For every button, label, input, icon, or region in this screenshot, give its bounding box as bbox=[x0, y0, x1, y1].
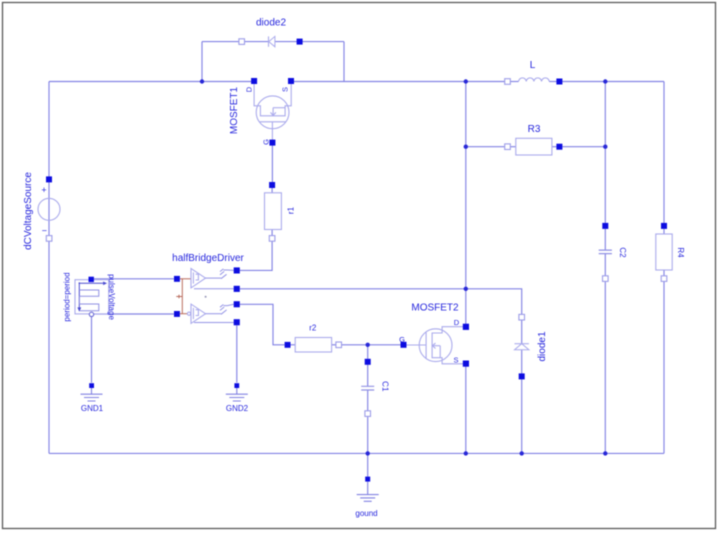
wire r2 to MOSFET2 gate bbox=[342, 344, 401, 346]
resistor R4 bbox=[656, 223, 685, 282]
wire C1 lead top bbox=[367, 365, 369, 387]
driver buffer 2 bbox=[187, 304, 205, 323]
junction node R3 left bbox=[464, 145, 468, 149]
wire left rail upper bbox=[48, 82, 50, 177]
wire C1 lead bottom bbox=[367, 390, 369, 410]
pulse source pulseVoltage bbox=[63, 272, 117, 321]
wire r2 lead left bbox=[290, 344, 295, 346]
wire pulse bottom to GND1 bbox=[91, 317, 93, 383]
ground GND2 bbox=[226, 383, 249, 413]
junction node bottom rail / C2 bbox=[603, 451, 607, 455]
wire R3 lead left bbox=[510, 146, 516, 148]
pin S of MOSFET1 bbox=[288, 78, 294, 84]
wire C1 to bottom rail bbox=[367, 416, 369, 453]
driver coupler 2 bbox=[206, 304, 234, 314]
wire R4 lead bottom bbox=[663, 270, 665, 276]
svg-text:D: D bbox=[245, 86, 254, 92]
signal red tick bbox=[176, 295, 182, 299]
junction node bottom rail / MOSFET2 bbox=[464, 451, 468, 455]
wire diode2 left riser bbox=[201, 42, 203, 82]
svg-text:G: G bbox=[261, 139, 270, 145]
diode diode1 bbox=[515, 314, 549, 379]
MOSFET Q MOSFET2 bbox=[399, 303, 469, 367]
wire C2 drop upper bbox=[604, 82, 606, 224]
junction node r2 / C1 bbox=[366, 343, 370, 347]
driver internal wire out2 bbox=[194, 288, 234, 290]
wire diode2 right riser bbox=[343, 42, 345, 82]
wire driver out3 to r2 bbox=[240, 304, 285, 345]
node mark between driver buffers bbox=[205, 296, 207, 298]
svg-text:GND2: GND2 bbox=[226, 404, 249, 413]
pin G of MOSFET1 bbox=[269, 140, 275, 146]
wire L lead left bbox=[510, 81, 518, 83]
wire driver out4 to GND2 bbox=[236, 325, 238, 382]
wire left rail lower bbox=[48, 241, 50, 453]
wire L lead right bbox=[549, 81, 556, 83]
svg-text:S: S bbox=[453, 356, 458, 365]
wire C2 drop lower bbox=[604, 282, 606, 454]
svg-text:−: − bbox=[42, 226, 47, 236]
wire bottom rail bbox=[49, 452, 664, 454]
junction node R3 right bbox=[603, 145, 607, 149]
wire R3 lead right bbox=[552, 146, 557, 148]
wire node to C1 bbox=[367, 345, 369, 359]
wire r1 to driver out1 bbox=[240, 241, 272, 270]
wire bottom rail to gound bbox=[367, 453, 369, 476]
svg-text:r1: r1 bbox=[287, 206, 296, 214]
svg-text:G: G bbox=[399, 335, 405, 344]
diode diode2 bbox=[239, 18, 303, 47]
driver output pin 2 bbox=[234, 286, 240, 292]
svg-text:pulseVoltage: pulseVoltage bbox=[107, 274, 116, 320]
svg-text:diode2: diode2 bbox=[256, 18, 286, 29]
junction node bottom rail / diode1 bbox=[520, 451, 524, 455]
signal wire red vertical bbox=[181, 279, 183, 314]
driver input pin 2 bbox=[174, 311, 180, 317]
wire through voltage source bbox=[48, 182, 50, 235]
capacitor C2 bbox=[599, 223, 628, 282]
svg-text:halfBridgeDriver: halfBridgeDriver bbox=[172, 253, 244, 264]
svg-text:gound: gound bbox=[355, 509, 377, 518]
wire mid drop lower bbox=[465, 367, 467, 454]
svg-text:diode1: diode1 bbox=[537, 331, 548, 361]
inductor L bbox=[505, 60, 563, 85]
wire R3 branch left bbox=[466, 146, 505, 148]
svg-text:R3: R3 bbox=[528, 124, 541, 135]
wire mid drop upper bbox=[465, 82, 467, 325]
driver output pin 3 bbox=[234, 301, 240, 307]
resistor R3 bbox=[505, 124, 563, 155]
signal wire red input1 bbox=[180, 278, 191, 280]
block halfBridgeDriver bbox=[172, 253, 244, 264]
svg-text:+: + bbox=[41, 185, 46, 195]
driver output pin 4 bbox=[234, 319, 240, 325]
svg-text:R4: R4 bbox=[676, 247, 685, 258]
wire MOSFET1 gate to r1 bbox=[271, 146, 273, 183]
wire top rail left bbox=[49, 81, 251, 83]
ground gound bbox=[355, 477, 378, 518]
voltage source dCVoltageSource bbox=[23, 172, 60, 250]
wire diode2 top bbox=[202, 41, 344, 43]
wire pulse bottom to driver in2 bbox=[92, 313, 174, 315]
svg-text:D: D bbox=[454, 318, 460, 327]
svg-text:period=period: period=period bbox=[63, 272, 72, 321]
driver internal wire out4 bbox=[194, 322, 234, 324]
driver buffer 1 bbox=[191, 269, 206, 288]
junction node top rail / C2 drop bbox=[603, 79, 607, 83]
wire R3 branch right bbox=[562, 146, 605, 148]
wire right drop upper bbox=[663, 82, 665, 224]
wire R4 lead top bbox=[663, 229, 665, 234]
pin S of MOSFET2 bbox=[463, 361, 469, 367]
svg-text:C2: C2 bbox=[618, 247, 627, 258]
pin D of MOSFET1 bbox=[251, 78, 257, 84]
junction node diode2 tap bbox=[200, 79, 204, 83]
wire top rail right bbox=[562, 81, 664, 83]
svg-text:dCVoltageSource: dCVoltageSource bbox=[23, 172, 34, 250]
svg-text:r2: r2 bbox=[309, 324, 317, 333]
wire C2 lead top bbox=[604, 229, 606, 250]
svg-text:GND1: GND1 bbox=[81, 404, 104, 413]
svg-text:L: L bbox=[530, 60, 536, 71]
signal wire red input2 bbox=[180, 313, 188, 315]
junction node driver out2 / mid drop bbox=[464, 287, 468, 291]
resistor r1 bbox=[265, 182, 296, 241]
wire r2 lead right bbox=[332, 344, 336, 346]
junction node top rail / mid drop bbox=[464, 79, 468, 83]
wire pulse top to driver in1 bbox=[94, 278, 174, 280]
wire C2 lead bottom bbox=[604, 254, 606, 276]
wire r1 lead top bbox=[271, 188, 273, 193]
wire top rail middle bbox=[294, 81, 505, 83]
svg-text:C1: C1 bbox=[381, 381, 390, 392]
wire right drop lower bbox=[663, 282, 665, 454]
pin G of MOSFET2 bbox=[401, 342, 407, 348]
junction node bottom rail / C1 bbox=[366, 451, 370, 455]
wire diode1 lead bottom bbox=[521, 350, 523, 374]
ground GND1 bbox=[81, 383, 104, 413]
MOSFET Q MOSFET1 bbox=[229, 78, 294, 146]
driver output pin 1 bbox=[234, 267, 240, 273]
svg-text:MOSFET2: MOSFET2 bbox=[411, 303, 459, 314]
svg-text:S: S bbox=[281, 87, 290, 92]
wire r1 lead bottom bbox=[271, 230, 273, 236]
pin D of MOSFET2 bbox=[463, 324, 469, 330]
wire diode1 to bottom rail bbox=[521, 379, 523, 453]
capacitor C1 bbox=[361, 359, 390, 417]
resistor r2 bbox=[285, 324, 342, 353]
svg-text:MOSFET1: MOSFET1 bbox=[229, 86, 240, 134]
wire diode1 lead top bbox=[521, 320, 523, 344]
wire driver out2 to diode1 bbox=[240, 289, 522, 315]
driver coupler 1 bbox=[206, 269, 234, 279]
driver input pin 1 bbox=[174, 276, 180, 282]
